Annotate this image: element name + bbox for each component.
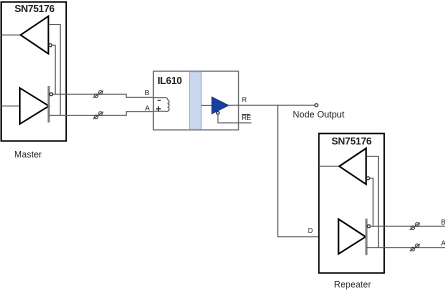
wire R output to node bbox=[228, 104, 314, 106]
op-amp U3 driver triangle bbox=[339, 219, 366, 254]
wire receiver U1 output to box edge bbox=[1, 34, 20, 36]
polarity mark minus bbox=[158, 99, 161, 101]
bubble U3 receiver inverting input bbox=[367, 177, 370, 180]
wire driver U1 input from box edge bbox=[1, 105, 20, 107]
wire U1 receiver inverting input B bbox=[52, 45, 55, 94]
IC U3 box SN75176 Repeater bbox=[319, 134, 384, 274]
svg-text:Repeater: Repeater bbox=[334, 280, 371, 290]
svg-text:R: R bbox=[242, 97, 247, 104]
svg-text:B: B bbox=[145, 90, 150, 97]
inductor coil input winding bbox=[154, 98, 169, 112]
bubble U1 receiver inverting input bbox=[49, 44, 52, 47]
wire U3 receiver output to box edge bbox=[319, 165, 339, 167]
svg-text:A: A bbox=[145, 105, 150, 112]
node U1 driver output bar bbox=[48, 86, 50, 123]
wire net B from master to IL610 pin B bbox=[53, 94, 154, 97]
wire barrier to output buffer bbox=[201, 104, 212, 106]
svg-text:RE: RE bbox=[242, 115, 252, 122]
bubble U1 driver inverting output bbox=[50, 93, 53, 96]
wire net A repeater output bbox=[366, 247, 445, 249]
wire U1 receiver input A bbox=[49, 25, 60, 116]
wire net A from master to IL610 pin A bbox=[49, 112, 154, 116]
IC U1 box SN75176 Master bbox=[1, 2, 66, 141]
op-amp U1 driver triangle bbox=[20, 88, 49, 124]
wire net B repeater output bbox=[370, 225, 445, 227]
svg-text:IL610: IL610 bbox=[158, 76, 183, 87]
polarity mark plus bbox=[156, 106, 161, 111]
bubble U3 driver inverting output bbox=[367, 225, 370, 228]
bubble U2 receiver enable bbox=[217, 112, 220, 115]
twisted pair symbol on repeater net B bbox=[410, 223, 420, 230]
svg-text:Node Output: Node Output bbox=[293, 110, 345, 120]
isolation barrier band bbox=[190, 72, 202, 130]
twisted pair symbol on net B bbox=[93, 91, 103, 98]
IC U2 box IL610 isolator bbox=[153, 71, 238, 130]
node U3 driver output bar bbox=[365, 219, 367, 256]
wire U3 receiver inverting input B bbox=[370, 178, 374, 226]
wire U3 receiver input A bbox=[367, 156, 379, 247]
svg-text:SN75176: SN75176 bbox=[332, 136, 373, 147]
wire branch from node output down to repeater D bbox=[278, 105, 319, 237]
svg-text:A: A bbox=[441, 241, 445, 248]
wire RE enable net bbox=[218, 114, 252, 123]
op-amp U2 output buffer blue triangle bbox=[212, 97, 228, 113]
node terminal Node Output open circle bbox=[315, 104, 318, 107]
op-amp U3 receiver triangle bbox=[339, 148, 366, 184]
op-amp U1 receiver triangle bbox=[21, 16, 49, 54]
svg-text:B: B bbox=[441, 219, 445, 226]
svg-text:D: D bbox=[308, 228, 313, 235]
twisted pair symbol on net A bbox=[93, 112, 103, 119]
svg-text:Master: Master bbox=[14, 150, 42, 160]
twisted pair symbol on repeater net A bbox=[410, 244, 420, 251]
svg-text:SN75176: SN75176 bbox=[15, 4, 56, 15]
